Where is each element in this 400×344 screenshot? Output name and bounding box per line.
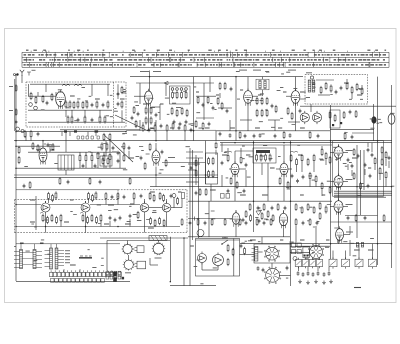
- wire: [148, 104, 150, 131]
- capacitor C82: [245, 221, 248, 223]
- audio shield box left: [14, 200, 16, 233]
- wire: [16, 131, 126, 133]
- resistor R50: [221, 104, 223, 109]
- terminal mark: [306, 255, 308, 257]
- resistor R15: [84, 117, 86, 122]
- wire: [279, 274, 291, 276]
- capacitor C95: [367, 184, 370, 186]
- tube V24 frame amp: [279, 213, 287, 225]
- label text: [155, 258, 162, 259]
- resistor R28: [97, 154, 99, 159]
- coil L3: [308, 80, 311, 92]
- resistor R11: [96, 102, 98, 107]
- resistor R21: [24, 132, 26, 137]
- wire: [16, 281, 130, 283]
- wire: [144, 214, 146, 233]
- wire: [97, 160, 99, 168]
- capacitor C13: [117, 151, 120, 153]
- plug P2: [113, 277, 117, 282]
- wire: [28, 84, 30, 96]
- resistor R123: [96, 218, 98, 223]
- terminal mark: [332, 124, 334, 126]
- resistor R109: [92, 196, 94, 201]
- capacitor C38: [302, 175, 305, 177]
- wire: [290, 141, 292, 286]
- wire: [367, 143, 369, 147]
- antenna T symbol: [27, 72, 31, 76]
- label text: [32, 70, 36, 71]
- capacitor C33: [140, 156, 143, 158]
- resistor R71: [144, 164, 146, 169]
- capacitor C67: [219, 132, 222, 134]
- wire: [15, 74, 17, 281]
- capacitor C98: [111, 195, 114, 197]
- audio shield box left top: [15, 199, 119, 201]
- wire: [330, 129, 374, 131]
- resistor R8: [77, 102, 79, 107]
- wire: [150, 264, 158, 266]
- T2 links: [23, 253, 34, 265]
- resistor R173: [272, 216, 274, 221]
- junction: [221, 243, 223, 245]
- capacitor C75: [195, 191, 198, 193]
- box shield: [330, 110, 340, 128]
- tube V10 sync amp: [231, 163, 239, 174]
- resistor R99: [325, 207, 327, 212]
- resistor R164: [239, 220, 241, 225]
- tube V4 second IF: [244, 91, 253, 104]
- capacitor C7: [91, 118, 94, 120]
- resistor R61: [325, 84, 327, 89]
- resistor R142: [309, 133, 311, 138]
- wire: [155, 175, 157, 187]
- wire: [247, 77, 249, 91]
- resistor R83: [296, 160, 298, 165]
- terminal: [171, 88, 174, 91]
- resistor R69: [149, 145, 151, 150]
- capacitor C5: [102, 103, 105, 105]
- wire: [219, 93, 221, 98]
- capacitor C50: [109, 216, 112, 218]
- wire: [334, 190, 392, 192]
- wire: [300, 105, 396, 107]
- resistor R80: [227, 156, 229, 161]
- wire: [283, 210, 285, 213]
- tube V17 AF out: [81, 203, 90, 212]
- resistor R89: [230, 179, 232, 184]
- label text: [150, 107, 155, 108]
- resistor R155: [295, 205, 297, 210]
- resistor R38: [176, 93, 178, 98]
- resistor R26: [85, 156, 87, 161]
- resistor R31: [101, 144, 103, 149]
- wire: [186, 181, 199, 183]
- resistor R19: [18, 148, 20, 153]
- wire: [16, 145, 60, 147]
- terminal: [172, 194, 176, 198]
- resistor R29: [103, 156, 105, 161]
- breaker S4: [369, 259, 377, 267]
- switch box: [226, 194, 230, 199]
- connector X3: [292, 250, 296, 254]
- capacitor C99: [123, 195, 126, 197]
- wire: [60, 129, 140, 131]
- wire: [274, 120, 276, 131]
- capacitor C51: [114, 218, 117, 220]
- resistor R141: [283, 133, 285, 138]
- capacitor C27: [259, 134, 262, 136]
- resistor R180: [172, 124, 174, 129]
- wire: [90, 204, 140, 206]
- resistor R149: [195, 171, 197, 176]
- resistor R87: [309, 174, 311, 179]
- wire: [371, 143, 373, 152]
- resistor R113: [159, 194, 161, 199]
- capacitor C102: [347, 216, 350, 218]
- resistor R56: [266, 111, 268, 116]
- wire: [331, 221, 392, 223]
- wire: [20, 244, 22, 250]
- wire: [71, 110, 73, 117]
- tube V3 first IF: [145, 91, 153, 104]
- capacitor C10: [82, 164, 85, 166]
- delay line hatch: [151, 236, 166, 241]
- wire: [42, 141, 44, 146]
- capacitor C54: [257, 267, 260, 269]
- junction: [15, 140, 17, 142]
- wire: [121, 110, 123, 122]
- resistor R136: [121, 88, 123, 93]
- tube V8 damper: [388, 114, 395, 124]
- wire: [154, 122, 156, 125]
- wire: [221, 175, 223, 187]
- capacitor C37: [296, 179, 299, 181]
- wire: [315, 226, 317, 246]
- tube V20 small: [197, 230, 204, 237]
- transformer T1 hatch: [61, 155, 72, 170]
- resistor R125: [137, 213, 139, 218]
- wire: [117, 199, 119, 205]
- wire: [149, 258, 151, 265]
- wire: [65, 110, 67, 117]
- resistor R198: [355, 216, 357, 221]
- capacitor C21: [230, 87, 233, 89]
- resistor R95: [329, 158, 331, 163]
- wire: [60, 221, 62, 227]
- trimmer C2: [29, 103, 33, 107]
- resistor R122: [91, 216, 93, 221]
- resistor R162: [256, 220, 258, 225]
- capacitor C103: [364, 216, 367, 218]
- resistor R27: [91, 156, 93, 161]
- resistor R42: [176, 111, 178, 116]
- resistor R45: [197, 98, 199, 103]
- wire: [224, 237, 226, 239]
- capacitor C91: [160, 124, 163, 126]
- wire: [216, 130, 330, 132]
- capacitor C53: [240, 244, 243, 246]
- wire: [169, 237, 171, 281]
- capacitor C56: [286, 266, 289, 268]
- resistor R196: [343, 113, 345, 118]
- wire video diagonal: [104, 135, 133, 162]
- capacitor C88: [15, 120, 18, 122]
- wire: [107, 84, 109, 96]
- wire: [14, 79, 16, 131]
- resistor R177: [142, 126, 144, 131]
- wire: [217, 266, 219, 271]
- wire: [317, 267, 319, 271]
- wire: [351, 93, 353, 99]
- tube V22 discharge: [213, 255, 224, 266]
- resistor R193: [32, 144, 34, 149]
- wire: [166, 199, 168, 203]
- wire: [235, 227, 237, 237]
- wire: [21, 75, 23, 83]
- resistor R185: [381, 160, 383, 165]
- capacitor C81: [263, 221, 266, 223]
- capacitor C72: [67, 180, 70, 182]
- wire: [344, 234, 350, 236]
- terminal: [293, 257, 297, 261]
- resistor R6: [69, 102, 71, 107]
- resistor R183: [353, 174, 355, 179]
- label text: [346, 232, 353, 233]
- resistor R188: [102, 159, 104, 164]
- capacitor C68: [253, 134, 256, 136]
- wire: [343, 152, 348, 154]
- connector X4: [297, 250, 301, 254]
- fuse F4: [316, 260, 323, 267]
- wire: [50, 244, 52, 248]
- wire: [330, 181, 334, 183]
- component value labels: [20, 83, 374, 265]
- resistor R32: [106, 144, 108, 149]
- resistor R22: [30, 132, 32, 137]
- resistor R170: [250, 216, 252, 221]
- wire: [307, 267, 309, 271]
- resistor R7: [73, 103, 75, 108]
- capacitor C8: [117, 102, 120, 104]
- capacitor C55: [262, 268, 265, 270]
- wire: [103, 162, 105, 168]
- wire: [360, 150, 362, 215]
- wire: [55, 92, 57, 96]
- capacitor C78: [284, 206, 287, 208]
- resistor R18: [121, 102, 123, 107]
- tuner inner shield: [113, 82, 115, 127]
- wire: [105, 199, 107, 205]
- wire: [245, 170, 247, 187]
- wire: [28, 121, 125, 123]
- resistor R94: [325, 154, 327, 159]
- wire: [343, 181, 348, 183]
- coil L2: [74, 85, 82, 87]
- wire: [109, 161, 111, 168]
- CRT box: [254, 244, 290, 263]
- coil L5: [182, 193, 185, 199]
- parts list column separators: [27, 52, 380, 67]
- capacitor C76: [257, 206, 260, 208]
- wire: [338, 144, 340, 146]
- resistor R131: [227, 246, 229, 251]
- resistor R75: [212, 172, 214, 177]
- resistor R85: [307, 160, 309, 165]
- wire: [364, 169, 366, 175]
- resistor R47: [219, 84, 221, 89]
- breaker S1: [329, 259, 337, 267]
- socket: [118, 272, 121, 276]
- label text: [168, 157, 175, 158]
- wire: [351, 170, 353, 176]
- terminal mark: [340, 122, 342, 124]
- wire: [298, 267, 300, 271]
- tube V15 boost diode: [336, 229, 344, 241]
- wire: [105, 166, 107, 168]
- wire: [155, 167, 157, 176]
- component value labels 2: [24, 72, 394, 284]
- resistor R78: [265, 155, 267, 160]
- tube V5 third IF: [291, 91, 300, 104]
- fuse F1: [295, 260, 302, 267]
- wire: [49, 146, 51, 152]
- coil mark: [290, 151, 298, 152]
- antenna dipole: [20, 70, 24, 76]
- resistor R146: [89, 179, 91, 184]
- resistor R192: [133, 194, 135, 199]
- wire: [391, 85, 393, 268]
- resistor R16: [99, 117, 101, 122]
- wire: [203, 83, 205, 120]
- wire: [215, 131, 217, 141]
- wire: [261, 163, 263, 175]
- resistor R67: [329, 113, 331, 118]
- connector X1: [292, 243, 296, 247]
- mains switch spoked: [310, 246, 323, 259]
- resistor R72: [208, 159, 210, 164]
- wire: [184, 131, 186, 141]
- resistor R178: [154, 126, 156, 131]
- wire: [208, 201, 210, 237]
- parts list index ticks: [31, 51, 374, 53]
- IF transformer T2: [256, 79, 269, 90]
- capacitor C73: [99, 180, 102, 182]
- resistor R111: [149, 194, 151, 199]
- resistor R143: [344, 134, 346, 139]
- wire: [30, 138, 32, 141]
- audio shield box right: [186, 190, 188, 233]
- triangle symbol: [256, 211, 261, 215]
- jack J2: [137, 261, 146, 269]
- label text: [239, 70, 247, 71]
- capacitor C4: [91, 103, 94, 105]
- wire: [358, 244, 360, 260]
- resistor R58: [287, 109, 289, 114]
- tube V18 ratio det: [140, 203, 149, 212]
- tube V6 noise limiter: [300, 113, 309, 122]
- label text: [253, 70, 261, 71]
- wire: [192, 150, 194, 240]
- resistor R5: [65, 102, 67, 107]
- capacitor C61: [317, 272, 320, 274]
- resistor R23: [103, 135, 105, 140]
- resistor R62: [330, 86, 332, 91]
- capacitor C97: [128, 146, 131, 148]
- resistor R82: [290, 156, 292, 161]
- wire: [276, 168, 280, 170]
- resistor R121: [87, 218, 89, 223]
- T3 taps: [45, 251, 65, 267]
- wire: [99, 110, 101, 117]
- resistor R57: [275, 107, 277, 112]
- label text: [65, 259, 70, 260]
- capacitor C29: [289, 134, 292, 136]
- wire: [221, 143, 223, 152]
- wire: [158, 241, 160, 243]
- resistor R105: [48, 194, 50, 199]
- wire: [261, 237, 263, 244]
- capacitor C40: [243, 189, 246, 191]
- wire: [374, 165, 376, 170]
- wire: [16, 226, 180, 228]
- resistor R51: [256, 99, 258, 104]
- resistor R163: [270, 220, 272, 225]
- wire: [165, 83, 167, 96]
- resistor R160: [295, 220, 297, 225]
- capacitor C14: [117, 159, 120, 161]
- tube V13 line out: [334, 176, 343, 188]
- terminal: [180, 88, 183, 91]
- wire: [218, 107, 232, 109]
- wire: [88, 199, 90, 203]
- resistor R34: [150, 108, 152, 113]
- wire: [195, 155, 197, 185]
- switch box: [221, 194, 225, 199]
- wire: [107, 240, 170, 242]
- wire: [14, 246, 16, 248]
- tube V21 frame osc: [198, 254, 207, 263]
- resistor R39: [181, 93, 183, 98]
- wire: [363, 150, 365, 190]
- chassis code S1935/30: [79, 257, 92, 259]
- resistor R153: [263, 205, 265, 210]
- wire: [193, 77, 195, 141]
- trimmer C3: [34, 106, 38, 110]
- resistor R181: [184, 126, 186, 131]
- wire: [14, 174, 218, 176]
- resistor R13: [67, 117, 69, 122]
- coil L1: [62, 85, 70, 87]
- resistor R74: [208, 172, 210, 177]
- ground: [330, 280, 332, 282]
- wire: [128, 151, 130, 158]
- transformer T1 box: [58, 155, 74, 170]
- resistor R63: [346, 84, 348, 89]
- resistor R73: [212, 159, 214, 164]
- resistor R52: [261, 99, 263, 104]
- resistor R169: [245, 212, 247, 217]
- rail contact: [64, 130, 67, 132]
- capacitor C89: [137, 112, 140, 114]
- label text: [346, 179, 353, 180]
- resistor R102: [379, 169, 381, 174]
- resistor R86: [313, 156, 315, 161]
- plug P1: [113, 272, 117, 277]
- antenna terminal A1: [16, 73, 18, 75]
- wire: [288, 168, 292, 170]
- rectifier box: [303, 247, 310, 258]
- wire: [220, 142, 392, 144]
